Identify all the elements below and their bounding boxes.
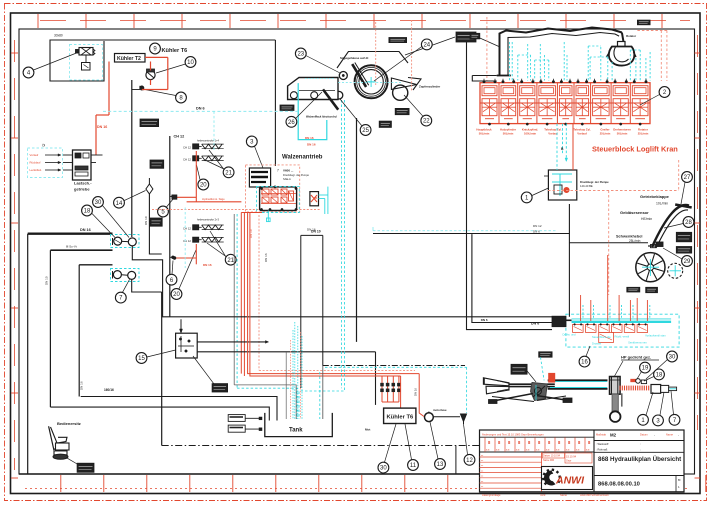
svg-text:25L/min: 25L/min	[638, 131, 649, 135]
leader HP line	[614, 361, 623, 377]
svg-text:DN 6: DN 6	[196, 107, 205, 111]
wire return x466.5	[467, 42, 553, 330]
svg-text:30: 30	[95, 200, 102, 206]
svg-text:Druckbegr. der Pumpe: Druckbegr. der Pumpe	[283, 173, 310, 177]
svg-text:ANWI: ANWI	[555, 475, 585, 487]
svg-text:SAE-A: SAE-A	[283, 177, 291, 181]
head lower diagonal	[323, 89, 338, 109]
label box head right	[395, 108, 409, 114]
auger B2	[183, 237, 224, 243]
boom pivot block	[610, 377, 621, 395]
balloon 10	[185, 57, 196, 68]
svg-text:Kühler T2: Kühler T2	[117, 56, 141, 62]
svg-text:DN 12: DN 12	[533, 224, 542, 228]
leader balloon 4	[34, 52, 80, 70]
labels DN12 DN6 right	[533, 224, 542, 233]
svg-text:140-40 BE: 140-40 BE	[580, 184, 593, 188]
component 15 valve	[176, 319, 198, 358]
leader 11	[405, 424, 412, 460]
auger A1	[183, 144, 224, 150]
red dashed crane left	[486, 17, 488, 81]
balloon 1	[521, 192, 532, 203]
svg-text:DN 6: DN 6	[531, 322, 539, 326]
wire black vertical x356	[356, 118, 358, 342]
aux valve right of block	[310, 192, 319, 206]
wire crane to block left	[472, 76, 496, 82]
svg-text:30: 30	[380, 466, 387, 472]
svg-text:CH 12: CH 12	[183, 158, 191, 162]
cyan dashed box pump block	[257, 187, 300, 213]
wire feeder vertical x169.8	[169, 136, 171, 317]
balloon 11	[408, 460, 419, 471]
svg-text:50L/min: 50L/min	[617, 131, 628, 135]
balloon 20 B	[171, 289, 182, 300]
balloon 18 boom	[654, 369, 665, 380]
boom joint cluster	[531, 383, 548, 401]
leader 30 boom	[646, 360, 668, 380]
label DN 16 x311	[307, 228, 316, 232]
svg-text:Name: Name	[560, 493, 567, 497]
svg-text:Drossel: Drossel	[592, 342, 602, 346]
svg-text:CH 12: CH 12	[183, 146, 191, 150]
fan small circle	[668, 263, 683, 278]
label box boom left	[511, 364, 527, 374]
svg-text:Vertr.: Vertr.	[540, 493, 546, 497]
svg-text:DN 16: DN 16	[307, 143, 316, 147]
cyan dashed below block	[561, 124, 568, 162]
gearbox Lastschaltgetriebe	[63, 150, 103, 180]
balloon 9	[150, 43, 161, 54]
svg-text:Steuerblock pla: Steuerblock pla	[592, 335, 611, 339]
svg-text:18: 18	[84, 209, 91, 215]
svg-text:10: 10	[187, 60, 194, 66]
title field scale row	[594, 432, 684, 440]
label DN10 rotated red centre	[249, 229, 268, 262]
svg-text:25L/min: 25L/min	[600, 131, 611, 135]
head saw bar diagonal	[352, 63, 369, 87]
svg-text:25: 25	[362, 128, 369, 134]
balloon 18	[82, 205, 93, 216]
wire return horizontal y351.8	[197, 352, 375, 405]
svg-text:Kühler T6: Kühler T6	[387, 415, 415, 421]
leader seat	[66, 457, 78, 464]
text Kuehler T6 heading	[162, 48, 188, 54]
leader 12	[464, 424, 468, 454]
wire pump2 down elbow	[132, 280, 162, 293]
label DN 16 rotated left2	[80, 381, 84, 390]
balloon 25	[360, 125, 371, 136]
pump data box	[249, 168, 270, 187]
svg-text:hebevorstecke 2+3: hebevorstecke 2+3	[197, 218, 220, 222]
svg-text:30x80: 30x80	[54, 34, 63, 38]
red wire sawmotor run	[172, 195, 242, 202]
tank label box 1	[228, 415, 262, 422]
balloon 15	[136, 353, 147, 364]
label DN 6 bottom	[531, 322, 539, 326]
svg-text:hebevorstecke 1+4: hebevorstecke 1+4	[197, 139, 220, 143]
wire suction pump2	[50, 250, 112, 407]
svg-text:: Werkstoff: : Werkstoff	[596, 442, 609, 446]
label box comp15	[212, 384, 228, 392]
label box head top2	[456, 32, 476, 42]
leader 13	[430, 422, 438, 459]
leader boom label	[527, 371, 536, 382]
leader 20B	[179, 250, 196, 289]
balloon 20 A	[198, 179, 209, 190]
text Durchbiegung Pumpe	[580, 180, 609, 188]
svg-text:Walzenantrieb: Walzenantrieb	[282, 155, 323, 161]
leader 28	[664, 224, 683, 229]
fan circle cooler T6	[146, 69, 155, 80]
svg-text:Leckölleit.: Leckölleit.	[30, 168, 43, 172]
fan hub connector	[648, 242, 663, 248]
boom right rails	[548, 380, 608, 388]
dash-dot boundary bottom	[162, 445, 480, 447]
balloon 21 B	[225, 254, 236, 265]
svg-text:DN 16: DN 16	[414, 388, 418, 396]
head small circle 23	[339, 72, 347, 80]
svg-text:19: 19	[642, 366, 649, 372]
cyan bundle risers	[234, 214, 237, 388]
svg-text:Senkbrems ven: Senkbrems ven	[628, 340, 647, 344]
text auger group A caption	[197, 139, 220, 143]
text Geblaesesensor	[620, 210, 652, 221]
red label DN 16 under augers	[203, 263, 212, 267]
text Mot label	[365, 428, 370, 432]
svg-text:DN 10: DN 10	[45, 276, 49, 285]
label DN 16 main	[80, 228, 91, 232]
svg-text:DN 16: DN 16	[305, 136, 314, 140]
filter item 12	[461, 414, 467, 424]
wire circle to filter	[433, 416, 460, 418]
auger A2	[183, 156, 224, 162]
svg-text:Maßstab: Maßstab	[596, 433, 607, 437]
cyan horizontal y388	[234, 385, 297, 419]
leader 1 boom	[646, 392, 653, 415]
red riser group to Kuehler T6	[381, 376, 401, 402]
svg-text:DN 16: DN 16	[80, 228, 91, 232]
label CH 12 heading	[174, 135, 185, 139]
red dashed fan region	[548, 160, 679, 295]
label box fan right2	[676, 247, 691, 254]
text 160/16	[104, 388, 114, 392]
svg-text:M2: M2	[610, 432, 617, 437]
svg-text:CH 12: CH 12	[174, 135, 185, 139]
svg-text:20: 20	[173, 292, 180, 298]
svg-text:16: 16	[581, 360, 588, 366]
pump pair 2 (balloon 7)	[113, 271, 136, 280]
wire left drop x27.7	[27, 234, 29, 474]
leader 3 boom	[660, 392, 664, 415]
balloon 3	[246, 136, 257, 147]
border red mid-margin dashes top	[40, 20, 690, 22]
svg-text:Gebläsesensor: Gebläsesensor	[620, 210, 649, 215]
red dotted long feeder	[152, 209, 320, 211]
head saw disc	[355, 65, 388, 98]
svg-text:motorluse: motorluse	[433, 408, 447, 412]
leader 6	[172, 261, 173, 275]
red box kuehler	[401, 374, 424, 417]
cyan dashed box pump group 1	[111, 235, 140, 248]
svg-text:10L/min: 10L/min	[656, 202, 668, 206]
cyan dotted into tank extra	[286, 322, 302, 419]
leader 7	[123, 280, 130, 293]
leader 5	[167, 199, 174, 208]
legend rows	[30, 144, 62, 173]
svg-text:Name: Name	[666, 433, 673, 437]
svg-text:-: -	[678, 433, 679, 437]
leader 29	[663, 248, 682, 259]
wire return x471.9	[472, 234, 552, 322]
check valve diamond	[146, 178, 153, 194]
svg-text:868.08.08.00.10: 868.08.08.00.10	[598, 482, 640, 488]
leader 23	[306, 56, 340, 74]
wire drop to bottom border	[455, 446, 457, 475]
balloon 8	[176, 92, 187, 103]
label 8l So-Vt	[66, 245, 77, 249]
svg-text:18: 18	[656, 373, 663, 379]
text V600 Druckbegrenzung	[277, 169, 310, 182]
svg-text:Tank: Tank	[289, 428, 303, 434]
grey pair tank right	[320, 366, 323, 420]
balloon 13	[435, 459, 446, 470]
balloon 7 pumps	[115, 292, 126, 303]
title text main	[598, 456, 681, 463]
leader 15	[147, 350, 176, 357]
red text Hydraulikmotor Saege	[202, 197, 225, 201]
leader 27	[681, 182, 685, 204]
cyan centre pair down	[299, 158, 345, 419]
svg-text:14: 14	[116, 201, 123, 207]
svg-text:Gepr: Gepr	[566, 460, 572, 463]
boom small fitting 19	[636, 379, 647, 384]
wire return horizontal y341.9	[197, 341, 268, 344]
text Lastschalt-getriebe	[74, 181, 92, 192]
tank outline	[265, 413, 333, 437]
boom cylinder right	[651, 385, 677, 394]
wire DN6 cyan dashed top	[103, 110, 298, 112]
boom red block	[549, 373, 555, 382]
svg-text:: Rohmaß: : Rohmaß	[596, 448, 608, 452]
svg-text:160/16: 160/16	[104, 388, 114, 392]
cyan drop from block	[267, 211, 271, 223]
red label DN 16	[97, 125, 107, 129]
svg-text:Vorlauf: Vorlauf	[548, 131, 557, 135]
red wire augers B drop	[173, 244, 196, 264]
leader 21A	[205, 150, 224, 170]
svg-text:13: 13	[437, 462, 444, 468]
red pair bundle risers	[241, 213, 262, 377]
label DN 10 centre	[311, 230, 321, 234]
leader head box	[405, 37, 455, 55]
leader 2	[640, 95, 660, 106]
svg-text:50L/min: 50L/min	[503, 131, 514, 135]
wire left box vertical x161.7	[161, 292, 163, 446]
cyan dashed vertical x185	[184, 208, 186, 269]
balloon 30 bottom	[378, 462, 389, 473]
svg-text:Öl: Öl	[42, 144, 45, 148]
leader 1	[532, 188, 548, 196]
bottom bank cyan rail	[572, 319, 672, 322]
border red mid-margin dashes right	[697, 35, 699, 430]
cyan hose drops from crane	[509, 42, 650, 81]
leader comp15 to label	[193, 356, 214, 384]
svg-text:Bedienersitz: Bedienersitz	[57, 421, 81, 426]
cyan dashed box around valve Y1	[70, 45, 103, 81]
svg-text:24: 24	[423, 43, 430, 49]
cyan diagonal boom	[541, 357, 545, 380]
label box crane left	[470, 33, 480, 39]
red dotted bundle riser	[258, 215, 260, 370]
svg-text:Mot: Mot	[365, 428, 370, 432]
svg-text:V600 ...: V600 ...	[283, 169, 294, 173]
svg-text:12: 12	[466, 458, 473, 464]
balloon 6	[166, 274, 177, 285]
balloon 30 boom	[667, 351, 678, 362]
leader 30 bottom	[385, 424, 397, 462]
svg-text:Anwi 868 Schutzvermerk: Anwi 868 Schutzvermerk	[580, 493, 609, 497]
svg-text:Rotator: Rotator	[626, 34, 637, 38]
balloon 12	[464, 454, 475, 465]
svg-text:Hydraulikmot. Säge: Hydraulikmot. Säge	[202, 197, 225, 201]
box Kuehler T6	[384, 408, 416, 423]
wire check valve drop	[149, 194, 161, 254]
leader 14	[124, 191, 145, 201]
svg-text:25L/min: 25L/min	[629, 239, 641, 243]
svg-text:DN 16: DN 16	[264, 253, 268, 262]
title field row2	[594, 442, 684, 452]
small dark rect fan bottom1	[627, 287, 640, 292]
svg-text:Vorlauf: Vorlauf	[30, 153, 39, 157]
svg-text:Sägegehäuse auf dt: Sägegehäuse auf dt	[340, 56, 368, 60]
balloon 29	[682, 256, 693, 267]
enclosure box around solenoid valve Y1	[50, 40, 275, 166]
svg-text:7: 7	[277, 169, 279, 173]
svg-text:30: 30	[669, 355, 676, 361]
boom ring	[610, 411, 621, 422]
small dark rect fan bottom2	[646, 287, 658, 292]
balloon 19	[640, 362, 651, 373]
label DN 10 rotated left	[45, 276, 49, 285]
red wire augers A drop	[195, 151, 197, 202]
border red mid-margin dashes bottom	[25, 488, 690, 490]
DN6 connector	[552, 316, 572, 327]
balloon 28	[683, 217, 694, 228]
title small right box	[676, 476, 681, 493]
svg-text:28: 28	[685, 220, 692, 226]
balloon 5	[158, 206, 169, 217]
head red dotted risers	[376, 20, 412, 92]
dash-dot return to filter	[323, 366, 467, 414]
wire x322.8 drop	[322, 235, 324, 365]
leader 22	[404, 95, 423, 116]
svg-text:50L/min: 50L/min	[479, 131, 490, 135]
svg-text:Datengrundlage: Datengrundlage	[482, 493, 501, 497]
svg-text:21: 21	[227, 258, 234, 264]
label box boom top	[539, 352, 552, 357]
svg-text:DN 16: DN 16	[80, 381, 84, 390]
leader 26	[296, 92, 323, 119]
Steuerblock section labels	[476, 128, 648, 136]
balloon 21 A	[223, 167, 234, 178]
svg-text:15.10.94: 15.10.94	[566, 455, 577, 459]
balloon 22	[421, 115, 432, 126]
swan neck pipe	[652, 205, 692, 249]
balloon 27	[682, 172, 693, 183]
head small circle mid	[335, 91, 343, 99]
balloon 2	[659, 87, 670, 98]
label DN 10 rotated mid	[144, 216, 148, 225]
text Getriebeklappe	[640, 194, 670, 206]
pump pair 1 (balloons 18/30)	[113, 237, 137, 246]
auger B1	[183, 225, 224, 231]
svg-text:Datum: Datum	[640, 433, 648, 437]
text Steuerblock Loglift Kran	[592, 145, 678, 154]
cyan dashed box pump group 2	[111, 269, 140, 282]
black pair to tank	[50, 397, 277, 421]
red dotted horizontal	[259, 369, 415, 371]
wire schwenk line	[569, 242, 648, 244]
svg-text:DN 16: DN 16	[97, 125, 107, 129]
svg-text:29: 29	[684, 259, 691, 265]
svg-text:DN 16: DN 16	[307, 228, 316, 232]
title drawing number	[598, 482, 640, 488]
svg-text:Datum 10.10.94: Datum 10.10.94	[543, 455, 561, 458]
boom grey drop	[621, 393, 623, 406]
svg-text:8l So-Vt: 8l So-Vt	[66, 245, 77, 249]
balloon 30 pumps	[93, 197, 104, 208]
bottom bank red drops	[581, 255, 650, 321]
label box seat	[77, 463, 94, 472]
title bottom red text	[482, 493, 609, 497]
svg-text:DN 16: DN 16	[203, 263, 212, 267]
svg-text:Vorlaufventil stan: Vorlaufventil stan	[645, 334, 666, 338]
svg-text:getriebe: getriebe	[74, 187, 90, 192]
leader 25	[340, 99, 362, 126]
svg-text:Kühler T6: Kühler T6	[162, 48, 188, 54]
svg-text:DN 6: DN 6	[481, 318, 488, 322]
text Tank	[289, 428, 303, 434]
svg-text:26: 26	[288, 120, 295, 126]
boom diagonal arms	[489, 394, 573, 404]
fan wheel	[636, 253, 665, 282]
motor circle 13	[425, 412, 434, 422]
wire x300.8 drop	[301, 235, 323, 388]
svg-text:23: 23	[297, 52, 304, 58]
svg-text:Zapfenzylinder: Zapfenzylinder	[419, 85, 441, 89]
text Motorluefter	[433, 408, 447, 412]
text Saegegehaeuse	[340, 56, 368, 60]
svg-text:20: 20	[200, 183, 207, 189]
balloon 23	[295, 48, 306, 59]
svg-text:HE/min: HE/min	[641, 217, 652, 221]
red dashed glow box pump block	[246, 165, 300, 212]
label DN 6 top	[196, 107, 205, 111]
boom lower bar	[612, 394, 618, 411]
svg-text:Steuerblock Loglift Kran: Steuerblock Loglift Kran	[592, 145, 678, 154]
wire pump1 pressure riser	[132, 80, 140, 237]
logo ANWI	[542, 468, 585, 486]
bottom bank valve units	[573, 324, 648, 343]
leader 18/30	[92, 206, 129, 238]
border red mid-margin dashes left	[14, 40, 16, 470]
svg-text:27: 27	[684, 175, 691, 181]
label DN 6 right	[481, 318, 488, 322]
crane grapple	[607, 34, 637, 66]
label box Wegeventil kran	[140, 119, 159, 127]
red riser to pump unit	[557, 124, 573, 170]
text Walzendruck	[306, 115, 337, 119]
